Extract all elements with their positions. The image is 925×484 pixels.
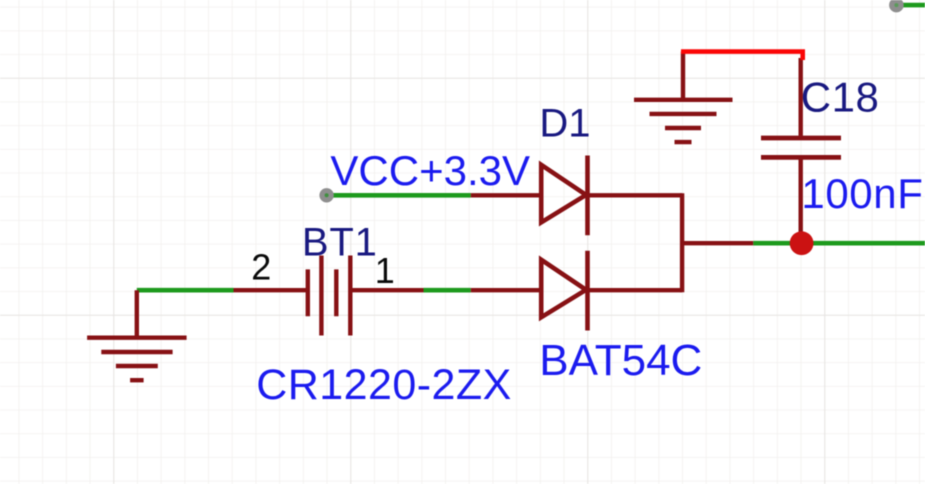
svg-text:100nF: 100nF bbox=[801, 170, 923, 217]
svg-text:C18: C18 bbox=[801, 74, 880, 121]
svg-text:2: 2 bbox=[251, 247, 271, 288]
svg-text:VCC+3.3V: VCC+3.3V bbox=[330, 147, 530, 194]
svg-text:BAT54C: BAT54C bbox=[539, 336, 702, 385]
svg-text:BT1: BT1 bbox=[302, 220, 378, 264]
svg-text:CR1220-2ZX: CR1220-2ZX bbox=[256, 361, 511, 409]
svg-text:1: 1 bbox=[375, 250, 395, 291]
svg-text:D1: D1 bbox=[539, 102, 590, 146]
